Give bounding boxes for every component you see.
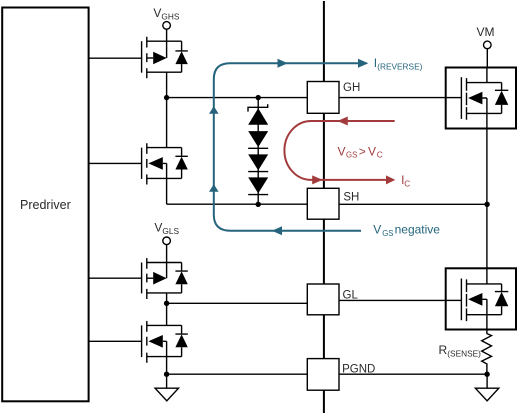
- svg-text:(SENSE): (SENSE): [447, 348, 481, 358]
- pin GL terminal box: [307, 284, 339, 315]
- svg-text:GL: GL: [343, 290, 359, 302]
- transistor Q1 high-side source FET of GH driver: [142, 29, 188, 97]
- wire predriver pin2 to Q2 gate: [89, 162, 142, 164]
- node half-bridge midpoint dot: [484, 202, 489, 207]
- svg-text:GLS: GLS: [162, 226, 179, 236]
- svg-text:GS: GS: [346, 151, 357, 160]
- svg-text:GHS: GHS: [161, 11, 179, 21]
- arrowhead red mid right-pointing: [312, 175, 322, 184]
- arrowhead red IC end: [386, 175, 395, 184]
- svg-text:negative: negative: [395, 222, 441, 236]
- transistor Q2 low-side sink FET of GH driver: [142, 98, 188, 205]
- transistor Q3 high-side source FET of GL driver: [142, 245, 188, 304]
- current path VGS>VC red loop: [284, 121, 394, 180]
- wire GL box to M2 gate: [339, 299, 461, 301]
- svg-text:SH: SH: [343, 191, 359, 203]
- arrowhead blue up 2: [209, 184, 219, 192]
- current path I(REVERSE) blue loop: [214, 63, 367, 231]
- node GH junction dot: [164, 95, 169, 100]
- pin GH terminal box: [307, 82, 339, 114]
- svg-text:GH: GH: [343, 82, 360, 94]
- node GL junction dot: [164, 301, 169, 306]
- arrowhead blue top mid: [278, 59, 288, 68]
- svg-text:V: V: [154, 221, 162, 235]
- wire SH node to SH box: [167, 203, 308, 205]
- svg-text:V: V: [153, 6, 161, 20]
- terminal VGLS: [163, 237, 171, 245]
- transistor M2 external low-side power FET: [446, 268, 516, 329]
- transistor Q4 low-side sink FET of GL driver: [142, 303, 188, 374]
- svg-text:R: R: [439, 343, 448, 357]
- svg-text:GS: GS: [382, 229, 393, 238]
- node SH/GH bus: vertical phase bus line: [323, 1, 325, 413]
- resistor RSENSE: [482, 330, 492, 375]
- wire SH box to half-bridge midpoint: [339, 203, 487, 205]
- svg-text:V: V: [373, 222, 381, 236]
- node zener top junction dot: [256, 95, 261, 100]
- svg-text:(REVERSE): (REVERSE): [377, 61, 422, 71]
- svg-text:>: >: [359, 144, 366, 158]
- arrowhead blue top end: [358, 59, 368, 68]
- zener clamp stack between GH and SH: [248, 98, 268, 205]
- svg-text:PGND: PGND: [342, 364, 375, 376]
- wire predriver pin4 to Q4 gate: [89, 340, 142, 342]
- wire VM to M1 drain: [486, 49, 488, 68]
- terminal VM: [484, 41, 492, 49]
- svg-text:Predriver: Predriver: [20, 198, 71, 212]
- wire PGND node to PGND box: [167, 373, 308, 375]
- ground left: [155, 374, 178, 401]
- svg-text:VM: VM: [477, 25, 495, 39]
- wire GL node to GL box: [167, 302, 308, 304]
- svg-text:C: C: [377, 150, 383, 160]
- wire predriver pin3 to Q3 gate: [89, 277, 142, 279]
- arrowhead red top left-pointing: [337, 117, 347, 126]
- pin PGND terminal box: [307, 359, 339, 391]
- wire GH box to M1 gate: [339, 97, 461, 99]
- node zener bottom junction dot: [256, 202, 261, 207]
- ground right: [475, 374, 498, 401]
- wire predriver pin1 to Q1 gate: [89, 57, 142, 59]
- wire GH node to GH box: [167, 97, 308, 99]
- wire M1 source to M2 drain: [486, 129, 488, 269]
- svg-text:C: C: [404, 178, 410, 188]
- transistor M1 external high-side power FET: [446, 68, 516, 129]
- wire PGND box to sense node: [339, 373, 487, 375]
- arrowhead blue up 1: [209, 106, 219, 114]
- node sense/ground junction dot: [484, 372, 489, 377]
- svg-text:V: V: [368, 144, 376, 158]
- arrowhead blue bottom left: [272, 226, 282, 235]
- predriver block U1: [2, 8, 88, 402]
- terminal VGHS: [163, 22, 171, 30]
- svg-text:V: V: [338, 144, 346, 158]
- pin SH terminal box: [307, 188, 339, 219]
- node PGND junction dot: [164, 372, 169, 377]
